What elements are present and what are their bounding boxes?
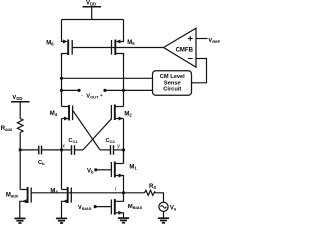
ground (under Vs)	[158, 218, 169, 223]
wire: top VDD rail	[62, 19, 124, 21]
svg-text:M4: M4	[50, 111, 58, 117]
svg-text:Maux: Maux	[6, 193, 19, 199]
wire: right output column M5 drain to M2	[123, 54, 125, 107]
svg-text:Vs: Vs	[170, 205, 177, 211]
svg-text:CC1: CC1	[68, 138, 78, 144]
wire: rail to M5 source	[117, 20, 124, 42]
wire: node x to capacitor CC1	[62, 149, 72, 151]
svg-text:Vb: Vb	[87, 168, 94, 174]
svg-text:M2: M2	[124, 112, 132, 118]
node dot probe minus	[77, 89, 80, 92]
svg-text:Cb: Cb	[38, 160, 45, 166]
resistor Rs	[145, 190, 156, 195]
svg-text:+: +	[100, 93, 103, 99]
svg-text:y: y	[116, 144, 120, 150]
transistor MBIAS (bottom-right NMOS current source)	[111, 193, 123, 218]
wire: rail to M6 source	[62, 20, 67, 42]
wire: Raux to Maux drain	[19, 133, 21, 190]
node y dot	[122, 148, 125, 151]
wire: Maux/M3 gate line to node i and Rs	[31, 192, 144, 194]
wire: Vb to M1 gate	[96, 169, 112, 171]
transistor M3 (bottom NMOS, mirror)	[62, 187, 72, 218]
op-amp CMFB	[164, 28, 197, 67]
transistor M5 (top-right PMOS)	[112, 40, 124, 57]
source Vs (AC source)	[159, 202, 168, 211]
svg-text:Circuit: Circuit	[163, 87, 181, 93]
svg-text:RS: RS	[149, 184, 156, 190]
wire: shared gate line M6,M5 to CMFB output	[72, 47, 163, 49]
node i dot	[122, 191, 125, 194]
transistor M6 (top-left PMOS)	[62, 40, 73, 57]
VDD supply symbol (top center)	[83, 7, 102, 20]
CM Level Sense Circuit box	[153, 71, 192, 96]
wire: Rs to Vs source	[156, 193, 164, 202]
wire: M2 source down to node y	[123, 119, 125, 164]
transistor M4 (middle-left)	[62, 105, 73, 121]
capacitor Cb	[39, 146, 62, 155]
minus input mark	[188, 58, 193, 60]
svg-text:M6: M6	[46, 41, 54, 47]
svg-text:i: i	[115, 186, 117, 192]
svg-text:MBIAS: MBIAS	[128, 204, 143, 210]
ground (under M3)	[56, 218, 67, 223]
wire: node y down to M1 drain	[123, 150, 125, 164]
wire: VREF to plus input	[196, 38, 208, 40]
wire: VOUT+ probe to CM sense lower input	[105, 89, 153, 91]
svg-text:Sense: Sense	[164, 80, 181, 86]
transistor Maux (bottom-left NMOS)	[20, 187, 31, 218]
svg-text:VDD: VDD	[86, 1, 96, 7]
svg-text:M5: M5	[127, 40, 135, 46]
wire: cross-couple diagonal from M2 gate to node x side	[83, 119, 111, 150]
capacitor CC1	[72, 145, 84, 155]
node x dot	[60, 148, 63, 151]
node dot Vb terminal	[94, 168, 97, 171]
svg-text:CC2: CC2	[106, 138, 116, 144]
wire: M4 drain down to node x	[61, 119, 63, 190]
wire: Vs to ground	[163, 211, 165, 217]
svg-text:-: -	[81, 93, 83, 99]
wire: VOUT- node to CM sense upper input	[62, 77, 153, 79]
VDD supply symbol (left, above Raux)	[11, 102, 30, 119]
node dot VBIAS terminal	[94, 205, 97, 208]
label CM Level Sense Circuit	[160, 74, 185, 93]
svg-text:VBIAS: VBIAS	[78, 205, 92, 211]
svg-text:M3: M3	[50, 189, 58, 195]
wire: left output column M6 drain to M4	[61, 54, 63, 107]
plus input mark	[188, 36, 193, 41]
svg-text:Raux: Raux	[1, 126, 13, 132]
svg-text:x: x	[61, 144, 65, 150]
svg-text:VOUT: VOUT	[86, 94, 99, 100]
node dot VOUT+ tap	[122, 89, 125, 92]
wire: VOUT- probe stub	[62, 89, 80, 91]
node dot VOUT- tap	[60, 77, 63, 80]
svg-text:VDD: VDD	[12, 95, 22, 101]
wire: diagonal landing to capacitor CC2	[100, 149, 110, 151]
svg-text:M1: M1	[129, 165, 137, 171]
ground (under MBIAS)	[118, 218, 129, 223]
transistor M2 (middle-right)	[111, 105, 123, 121]
svg-text:VREF: VREF	[208, 38, 221, 44]
ground (under Maux)	[14, 218, 25, 223]
svg-text:CM Level: CM Level	[160, 74, 185, 80]
node dot on left output column	[60, 89, 63, 92]
wire: minus input to CM sense output	[192, 59, 207, 83]
svg-text:CMFB: CMFB	[176, 47, 194, 53]
wire: VBIAS to MBIAS gate	[95, 206, 111, 208]
transistor M1 (right NMOS cascode)	[111, 162, 123, 193]
node dot aux	[19, 148, 22, 151]
capacitor CC2	[111, 145, 124, 155]
node dot probe plus	[103, 89, 106, 92]
wire: cross-couple diagonal from M4 gate to node y side	[73, 111, 100, 150]
resistor Raux	[17, 119, 23, 133]
wire: aux node to capacitor Cb	[20, 149, 38, 151]
